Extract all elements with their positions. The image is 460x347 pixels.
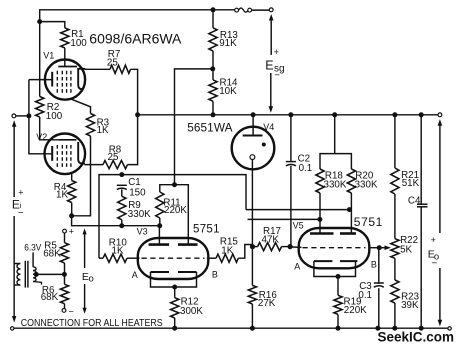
wire R14 to rail [212, 101, 214, 115]
node C1 top [119, 172, 124, 177]
wire top rail [40, 9, 235, 11]
node V3 plate A [157, 223, 162, 228]
arrow Eo up [438, 119, 443, 233]
label R20 [355, 170, 378, 190]
svg-text:10K: 10K [219, 86, 237, 97]
svg-text:+: + [69, 227, 74, 237]
wire R1 to V1 grid [64, 48, 66, 67]
tube V3 cathode bar A [151, 271, 170, 273]
node V4 top [251, 112, 256, 117]
label C4 [408, 196, 421, 207]
wire rail to R13 [212, 10, 214, 28]
svg-text:o: o [89, 274, 94, 285]
label C1 [128, 177, 146, 198]
svg-text:+: + [274, 47, 279, 57]
node plate loads [332, 112, 337, 117]
resistor R13 [209, 28, 217, 51]
label R12 [180, 297, 203, 317]
terminal Eo- sense [62, 307, 74, 317]
resistor R19 [334, 295, 342, 314]
wire node jog down [72, 216, 160, 226]
tube V2 grid cap bar [58, 139, 76, 141]
wire sense line [99, 175, 246, 259]
wire fuse to terminal [252, 9, 270, 11]
tube V4 envelope [232, 127, 275, 170]
tube V3 plate bar B [178, 243, 198, 246]
wire R6 to terminal [64, 304, 66, 309]
tube V3 plate bar A [149, 243, 170, 246]
wire R2 to V2 grid [40, 117, 59, 140]
wire V3 plate A lead [158, 226, 160, 245]
label R19 [344, 296, 368, 316]
wire C2 down [290, 166, 292, 247]
svg-text:V2: V2 [36, 132, 47, 142]
resistor R16 [248, 285, 256, 304]
node V5 plate B [347, 207, 352, 212]
wire Ei line lower [13, 216, 15, 318]
wire to R1 [40, 22, 65, 28]
wire rail to V4 [252, 115, 254, 136]
tube V1 grids dashed [57, 71, 71, 94]
svg-text:5751: 5751 [193, 224, 220, 236]
node reference [250, 244, 255, 249]
svg-text:5751: 5751 [354, 215, 383, 229]
wire R13 to node [212, 51, 214, 69]
wire heater rail [14, 327, 448, 329]
svg-text:SeekIC.com: SeekIC.com [378, 329, 455, 345]
resistor R17 [258, 243, 282, 251]
label R3 [97, 117, 110, 136]
wire R11 to plate line [159, 218, 161, 226]
wire center tap to divider [36, 273, 64, 275]
wire tee to V3 plate B [175, 185, 189, 244]
resistor R23 [391, 280, 399, 303]
tube V4 starter dot [262, 143, 266, 147]
tube V2 grids dashed [57, 145, 71, 168]
wire V4 cathode down [251, 160, 253, 247]
label V5 section A [294, 261, 300, 271]
wire R22 to R23 [394, 258, 396, 280]
label heater note [21, 318, 163, 329]
node C4/ground [419, 326, 424, 331]
resistor R9 [118, 196, 126, 219]
node R5/R6 junction [62, 272, 67, 277]
node R9 bottom [119, 223, 124, 228]
tube V4 anode bar [243, 135, 263, 137]
capacitor C2 [286, 162, 296, 166]
resistor R15 [216, 254, 238, 262]
node grid-drive junction [37, 19, 42, 24]
tube V1 envelope [45, 60, 85, 100]
svg-text:5651WA: 5651WA [187, 120, 232, 134]
label R2 [46, 102, 63, 122]
label V4 [263, 122, 274, 132]
label R13 [219, 30, 238, 49]
wire grid node to V5 [290, 246, 301, 249]
label Esg [265, 47, 284, 81]
svg-text:300K: 300K [180, 306, 203, 317]
label V5 [293, 221, 304, 231]
wire V3 cathode box [151, 272, 197, 287]
svg-text:0.1: 0.1 [299, 163, 313, 174]
node R16/ground [250, 326, 255, 331]
svg-text:−: − [18, 208, 24, 219]
svg-text:E: E [265, 59, 273, 73]
wire R23 to ground [394, 303, 396, 328]
label R9 [128, 200, 151, 220]
node V5 grid A [288, 244, 293, 249]
wire V5 plate B line [246, 209, 349, 211]
svg-text:330K: 330K [128, 209, 151, 220]
wire grid-drive vertical [39, 9, 41, 96]
wire R5 to tap [64, 263, 66, 274]
svg-text:C1: C1 [128, 177, 141, 188]
svg-text:100: 100 [46, 111, 63, 122]
node cathode junction [26, 113, 31, 118]
wire input to cathodes [16, 115, 29, 117]
wire R16 to ground [251, 304, 253, 328]
wire ref to R16 [251, 247, 253, 286]
node R12/ground [172, 326, 177, 331]
capacitor C3 [374, 283, 384, 287]
wire C3 to ground [378, 288, 380, 328]
terminal Ei input [12, 114, 16, 118]
resistor R8 [103, 161, 128, 169]
wire R20 to V5 plate B [350, 193, 352, 234]
label V1 [43, 51, 54, 61]
label V2 [36, 132, 47, 142]
wire V1 bottom to R3 [70, 99, 91, 114]
label R8 [108, 145, 122, 164]
tube V5 plate bar A [310, 232, 334, 235]
node R3/R4 junction [69, 213, 74, 218]
resistor R20 [347, 169, 355, 193]
wire sense to R10 [99, 257, 103, 259]
watermark [378, 329, 455, 345]
node grid B [377, 245, 382, 250]
svg-text:5K: 5K [400, 244, 412, 255]
tube V3 grid dashed [142, 257, 205, 259]
potentiometer R22 [391, 239, 399, 259]
label C3 [358, 281, 372, 301]
tube V5 plate bar B [340, 232, 356, 235]
label R11 [163, 198, 187, 217]
label R22 [400, 235, 418, 255]
node R23/ground [392, 326, 397, 331]
wire R14 top [212, 69, 214, 80]
wire to V3 plate B [175, 69, 213, 185]
resistor R2 [36, 97, 44, 118]
transformer T1 primary [14, 264, 20, 286]
wire R7 to tie line [131, 69, 138, 115]
wire terminal to R5 [64, 233, 66, 243]
svg-text:330K: 330K [324, 180, 347, 191]
label R14 [219, 78, 238, 98]
tube V3 cathode bar B [178, 271, 197, 273]
node R19/ground [336, 326, 341, 331]
terminal Eo+ out [438, 113, 442, 117]
tube V2 cathode [51, 146, 53, 161]
label 6098/6AR6WA [89, 31, 182, 47]
arrow Eo-left up [83, 228, 87, 268]
tube V3 envelope [138, 238, 209, 279]
wire rail to loads [334, 115, 336, 154]
wire V5 plate A line [248, 218, 320, 220]
label V3 section A [132, 270, 138, 280]
tube V1 grid cap bar [58, 66, 77, 68]
arrow R22 wiper [381, 245, 391, 250]
wire V3 cathode to R12 [174, 287, 176, 298]
label R21 [401, 170, 419, 189]
svg-text:−: − [274, 70, 280, 81]
label Eo right [428, 235, 439, 269]
resistor R21 [391, 168, 399, 194]
svg-text:220K: 220K [164, 205, 187, 216]
node C4 top [419, 112, 424, 117]
svg-text:A: A [132, 270, 138, 280]
resistor R12 [171, 298, 179, 318]
resistor R11 [156, 192, 164, 218]
wire R12 to ground [174, 318, 176, 328]
svg-text:150: 150 [129, 188, 146, 199]
node C3/ground [375, 326, 380, 331]
wire rail to C4 [420, 115, 422, 204]
wire rail to C2 [290, 115, 292, 162]
wire R17 to grid node [282, 246, 291, 248]
capacitor C4 [417, 204, 428, 207]
resistor R5 [60, 243, 68, 263]
label Eo left [82, 271, 94, 285]
wire R4 to node [71, 203, 73, 216]
wire V5 cathode box [314, 261, 356, 276]
node C2 top [288, 112, 293, 117]
wire load bus [320, 154, 351, 169]
label R1 [70, 29, 87, 49]
arrow Esg up [269, 14, 274, 55]
wire C4 to ground [420, 207, 422, 328]
label 6.3V [24, 242, 42, 253]
tube V5 cathode bar A [314, 260, 333, 262]
tube V2 plate [78, 142, 85, 164]
label R4 [54, 182, 69, 201]
wire V2 plate to R8 [84, 164, 103, 166]
node R13 top [211, 7, 216, 12]
wire V2 bottom to R4 [71, 173, 73, 181]
wire junction to R6 [64, 274, 66, 284]
label 5751 V3 [193, 224, 220, 236]
svg-text:C4: C4 [408, 196, 421, 207]
arrow Ei up [12, 120, 17, 197]
fuse F1 [235, 8, 252, 12]
label 5751 V5 [354, 215, 383, 229]
node V3 cathode [172, 285, 177, 290]
wire V5 cathode to R19 [337, 277, 339, 296]
label R5 [43, 241, 61, 260]
svg-text:6098/6AR6WA: 6098/6AR6WA [89, 31, 182, 47]
wire C1 to R9 [121, 189, 123, 196]
tube V5 envelope [299, 228, 370, 268]
label V3 section B [212, 270, 218, 280]
label Ei [12, 188, 24, 219]
label R7 [107, 49, 120, 69]
label V5 section B [371, 259, 377, 269]
tube V1 plate [78, 69, 85, 89]
label R15 [220, 237, 239, 257]
svg-text:1K: 1K [56, 189, 68, 200]
wire ref to R17 [253, 246, 258, 248]
arrow Eo down [438, 268, 443, 326]
svg-text:A: A [294, 261, 300, 271]
node R14/rail [211, 112, 216, 117]
resistor R7 [110, 65, 131, 73]
tube V2 envelope [45, 134, 86, 175]
node plate-B tee [172, 182, 177, 187]
node T1 center tap [34, 272, 39, 277]
svg-text:CONNECTION FOR ALL HEATERS: CONNECTION FOR ALL HEATERS [21, 318, 163, 329]
svg-text:V3: V3 [137, 226, 148, 236]
label C2 [298, 154, 313, 175]
svg-text:+: + [431, 235, 436, 245]
transformer T1 secondary [33, 252, 41, 284]
tube V4 cathode [250, 155, 255, 160]
wire V1 cathode down [28, 80, 30, 116]
capacitor C1 [117, 185, 127, 189]
resistor R3 [86, 114, 94, 137]
tube V1 cathode [51, 72, 53, 87]
wire R18 to V5 plate A [319, 193, 321, 234]
node V5 cathode [336, 274, 341, 279]
svg-text:6.3V: 6.3V [24, 242, 42, 253]
wire R21 to R22 [394, 194, 396, 239]
svg-text:330K: 330K [355, 180, 378, 191]
svg-text:+: + [18, 188, 23, 198]
svg-text:−: − [69, 307, 74, 317]
svg-text:39K: 39K [401, 300, 419, 311]
svg-text:51K: 51K [402, 178, 420, 189]
terminal Esg+ [269, 8, 273, 12]
label R17 [262, 226, 281, 246]
svg-text:68K: 68K [43, 248, 61, 259]
wire R19 to ground [337, 314, 339, 328]
label R10 [109, 238, 128, 257]
wire R9 to feedback [121, 220, 123, 226]
label R16 [258, 290, 277, 309]
svg-text:91K: 91K [219, 38, 237, 49]
svg-text:0.1: 0.1 [358, 290, 372, 301]
resistor R18 [316, 169, 324, 193]
wire V3 grid B out [207, 257, 216, 259]
svg-text:V5: V5 [293, 221, 304, 231]
arrow Esg down [269, 73, 274, 113]
label 5651WA [187, 120, 232, 134]
resistor R4 [68, 181, 76, 203]
wire grid B to C3 [378, 248, 380, 284]
wire R15 to ref node [238, 245, 251, 259]
label V3 [137, 226, 148, 236]
wire R10 to V3 grid [127, 257, 140, 259]
label R23 [401, 291, 420, 310]
svg-text:27K: 27K [258, 298, 276, 309]
svg-text:220K: 220K [344, 305, 367, 316]
svg-text:−: − [432, 258, 438, 269]
terminal heater left [11, 327, 14, 330]
wire rail to R21 [394, 115, 396, 168]
svg-text:68K: 68K [41, 292, 59, 303]
svg-text:B: B [371, 259, 377, 269]
resistor R10 [103, 254, 127, 262]
wire R3 down [72, 136, 91, 216]
wire V5 grid B out [369, 247, 380, 249]
tube V5 cathode bar B [340, 260, 357, 262]
svg-text:1K: 1K [97, 125, 109, 136]
label R18 [324, 170, 347, 190]
wire R8 to tie line [128, 115, 138, 165]
wire to V2 cathode [29, 116, 52, 154]
wire main rail [138, 114, 438, 116]
tube V1 cathode lead [29, 79, 52, 81]
label R6 [41, 285, 59, 303]
tube V5 grid dashed [303, 247, 366, 249]
transformer T1 core [25, 261, 28, 288]
terminal heater right [448, 327, 451, 330]
svg-text:B: B [212, 270, 218, 280]
node R13/R14 junction [210, 66, 215, 71]
resistor R6 [60, 284, 68, 303]
node tie/rail [135, 112, 140, 117]
wire V1 plate to R7 [85, 68, 110, 70]
node R21 top [392, 112, 397, 117]
arrow Ei down [12, 316, 17, 323]
terminal Eo+ sense [63, 227, 74, 237]
svg-text:V1: V1 [43, 51, 54, 61]
arrow Eo-left down [83, 284, 87, 314]
resistor R1 [61, 28, 69, 48]
resistor R14 [209, 80, 217, 101]
wire tee to R11 [160, 185, 175, 192]
node V5 plate A [317, 217, 322, 222]
svg-text:100: 100 [70, 38, 87, 49]
